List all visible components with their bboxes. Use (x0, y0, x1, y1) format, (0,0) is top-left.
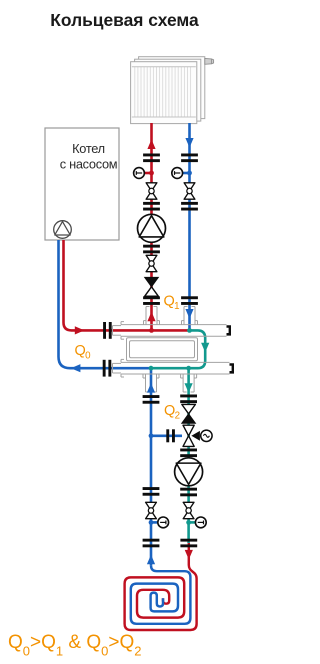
union M2 (103, 360, 112, 377)
svg-text:2: 2 (175, 410, 180, 421)
arrow radiator supply up (147, 139, 155, 149)
wire ring U-turn (teal) (151, 330, 205, 368)
node thermo T3 tap (149, 520, 154, 525)
thermometer T2 (172, 168, 190, 179)
node thermo T4 tap (186, 520, 191, 525)
arrow radiator return down 2 (185, 309, 193, 319)
node label Q2 (164, 403, 180, 421)
boiler pump (54, 221, 72, 239)
pump P2 (175, 458, 203, 486)
node bypass tee (149, 433, 154, 438)
check valve CV2 (182, 404, 196, 423)
arrow radiator return down (185, 138, 193, 148)
pump P1 (138, 214, 166, 242)
svg-text:Q: Q (75, 343, 86, 359)
union R1c (143, 245, 160, 254)
svg-text:0: 0 (85, 350, 91, 361)
wire mixing bypass (blue) (151, 434, 182, 437)
wire boiler return (blue) (59, 240, 152, 368)
valve V5 (183, 502, 194, 518)
boiler label (60, 141, 118, 172)
thermometer T3 (151, 517, 169, 528)
arrow floor return up (147, 383, 155, 393)
formula Q0>Q1 & Q0>Q2 (8, 632, 141, 659)
arrow return to boiler (71, 364, 81, 372)
check valve CV1 (145, 277, 159, 296)
node manifold ring junction (187, 328, 192, 333)
node label Q0 (75, 343, 92, 361)
svg-text:с насосом: с насосом (60, 157, 118, 172)
node thermo T2 tap (187, 171, 192, 176)
wire radiator return (blue riser) (188, 123, 191, 330)
node manifold supply junction (149, 328, 154, 333)
arrow ring down (201, 343, 209, 353)
svg-text:Котел: Котел (72, 141, 105, 156)
union R1d (143, 296, 160, 305)
union M1 (103, 322, 112, 339)
valve V2 (146, 255, 157, 271)
union bypass (166, 429, 175, 442)
manifold cap top-right (227, 325, 232, 335)
floor loop return (blue spiral) (131, 565, 191, 623)
union F1c (143, 539, 160, 548)
union R2b (181, 202, 198, 211)
union F1a (143, 395, 160, 404)
union F2b (180, 449, 197, 458)
3-way mixing valve (183, 425, 212, 446)
union R2c (181, 296, 198, 305)
arrow supply into manifold (75, 326, 85, 334)
manifold cap bottom-right (230, 363, 235, 373)
union F2c (180, 488, 197, 497)
node manifold floor junction (186, 366, 191, 371)
node label Q1 (164, 294, 180, 312)
union F1b (143, 487, 160, 496)
union F2a (180, 395, 197, 404)
ring manifold body (113, 307, 230, 393)
thermometer T4 (189, 517, 207, 528)
valve V3 (184, 183, 195, 199)
wire radiator supply (red riser) (150, 123, 153, 330)
node thermo T1 tap (149, 171, 154, 176)
node manifold return junction (149, 366, 154, 371)
svg-text:Кольцевая схема: Кольцевая схема (50, 10, 199, 30)
svg-text:Q: Q (164, 403, 175, 419)
wire floor supply branch (teal) (187, 368, 190, 543)
arrow radiator supply up 2 (147, 312, 155, 322)
boiler (45, 128, 119, 240)
title (50, 10, 199, 30)
arrow floor supply down (185, 383, 193, 393)
arrow floor supply down 2 (185, 550, 193, 560)
union R2a (181, 154, 198, 163)
svg-text:1: 1 (174, 301, 179, 312)
arrow floor return up 2 (147, 555, 155, 565)
union R1b (143, 202, 160, 211)
wire boiler supply (red) (64, 240, 190, 330)
union F2d (180, 539, 197, 548)
union R1a (143, 154, 160, 163)
valve V4 (146, 502, 157, 518)
thermometer T1 (134, 168, 152, 179)
radiator (131, 57, 214, 124)
floor loop supply (red spiral) (125, 543, 197, 630)
svg-text:Q: Q (164, 294, 175, 310)
wire floor return branch (blue) (150, 368, 153, 565)
valve V1 (146, 183, 157, 199)
